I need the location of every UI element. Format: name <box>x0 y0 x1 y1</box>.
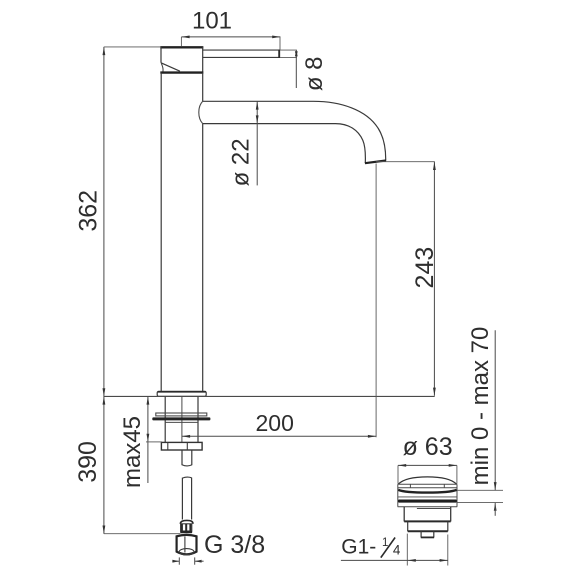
lever rod top edge <box>203 49 280 51</box>
dim o22 up arrow <box>256 101 259 109</box>
svg-text:ø 63: ø 63 <box>403 433 453 461</box>
drain body bottom bold <box>404 520 451 522</box>
crimp bottom band <box>180 531 192 533</box>
dim 362-390 line <box>103 47 105 534</box>
drain rim notch right <box>443 484 445 488</box>
drain seal dish bold <box>398 490 456 493</box>
base flange <box>157 391 206 396</box>
crimp rib 2 <box>185 524 187 531</box>
drain tab left <box>420 531 422 537</box>
faucet head top edge <box>160 46 203 48</box>
dim 200 left arrow <box>182 435 190 438</box>
drain body step line <box>417 508 450 510</box>
dim 101 line <box>181 36 280 38</box>
crimp rib 3 <box>189 524 191 531</box>
svg-text:G 3/8: G 3/8 <box>204 531 265 559</box>
dim o63 right arrow <box>449 464 457 467</box>
lower washer bold <box>152 417 210 420</box>
dim 243 line <box>433 162 435 396</box>
G38 right tick <box>194 557 196 564</box>
svg-text:200: 200 <box>256 410 294 436</box>
drain tab right <box>433 531 435 537</box>
min-max extension line upper <box>457 489 503 491</box>
dim G114 right extension <box>447 535 449 566</box>
dim 101 right extension <box>279 37 281 50</box>
dim min-max lower tail <box>494 503 496 516</box>
shank left edge <box>164 396 166 442</box>
dim min-max down arrow <box>494 482 497 490</box>
spout junction fillet arc <box>199 101 203 123</box>
lever pivot arc <box>161 63 163 71</box>
dim max45 top arrow <box>147 396 150 404</box>
dim 101 left extension <box>180 37 182 47</box>
rod stub break curve <box>182 465 192 466</box>
dim 243 bottom arrow <box>433 388 436 396</box>
counter reference line <box>104 395 435 397</box>
hose nut facet line <box>184 537 186 553</box>
drain rim notch left <box>409 484 411 488</box>
dim G114 right arrow <box>440 559 448 562</box>
lever rod bottom edge <box>203 56 280 58</box>
nut top extension line <box>146 441 162 443</box>
base flange top bold edge <box>158 391 206 393</box>
drain rim lower line <box>398 487 457 489</box>
svg-text:max45: max45 <box>119 416 146 488</box>
svg-text:4: 4 <box>393 543 401 558</box>
drain step2 right <box>447 522 449 532</box>
hose crimp top cap <box>180 520 193 523</box>
svg-text:ø 22: ø 22 <box>228 138 255 186</box>
G38 right arrow <box>195 560 202 563</box>
dim min-max line <box>494 330 496 490</box>
dim o63 line <box>398 464 457 466</box>
drain right side <box>456 484 458 507</box>
threaded rod stub right edge <box>191 450 193 465</box>
dim o8 line <box>295 50 297 88</box>
dim 200 right arrow <box>368 435 376 438</box>
column left edge <box>160 73 162 392</box>
column right edge upper <box>202 73 204 102</box>
spout outlet face <box>365 161 386 164</box>
dim 200 line <box>182 435 376 437</box>
drain under-dish line <box>398 496 457 498</box>
crimp rib 1 <box>181 524 183 531</box>
head bottom bold bar <box>160 71 203 73</box>
nut facet line 2 <box>186 442 188 450</box>
hose nut outline <box>177 535 197 554</box>
head top extension line <box>104 46 161 48</box>
dim 390 top arrow <box>103 396 106 404</box>
G38 dim line left <box>172 560 179 562</box>
dim o22 down arrow <box>256 115 259 123</box>
dim 362 bottom arrow <box>103 388 106 396</box>
dim 243 top arrow <box>433 162 436 170</box>
drain dome base line <box>398 483 457 485</box>
dim 362 top arrow <box>103 47 106 55</box>
dim o8 upper arrow <box>295 50 298 56</box>
G38 left arrow <box>172 560 179 563</box>
threaded rod stub left edge <box>181 450 183 465</box>
drain body left <box>403 507 405 522</box>
drain band bottom line <box>398 506 458 508</box>
spout bottom edge <box>203 124 366 163</box>
supply pipe right edge <box>191 478 193 520</box>
G38 dim line right <box>195 560 204 562</box>
svg-text:362: 362 <box>74 190 102 232</box>
upper washer <box>156 413 207 416</box>
svg-text:G1-: G1- <box>341 535 376 558</box>
mounting nut <box>161 442 202 450</box>
dim 101 left arrow <box>181 36 189 39</box>
dim G114 left extension <box>406 534 408 566</box>
dim max45 line <box>147 396 149 483</box>
shank right edge <box>197 396 199 442</box>
spout top edge <box>203 101 386 160</box>
supply pipe left edge <box>181 478 183 520</box>
dim G114 left arrow <box>408 559 416 562</box>
washer underside line <box>165 421 198 423</box>
svg-text:243: 243 <box>411 247 439 289</box>
svg-text:ø 8: ø 8 <box>301 56 328 91</box>
dim o8 lower arrow <box>295 51 298 57</box>
lever rod end cap <box>278 50 280 58</box>
dim o63 left extension <box>397 465 399 483</box>
dim max45 bottom arrow <box>147 434 150 442</box>
drain body right <box>450 507 452 522</box>
hose top extension line <box>104 533 180 535</box>
faucet axis extension line <box>181 396 183 442</box>
dim 101 right arrow <box>272 36 280 39</box>
drain tab bottom bold <box>421 536 434 538</box>
spout outlet extension line <box>376 161 435 163</box>
svg-text:101: 101 <box>192 7 232 34</box>
rod bottom extension line <box>280 56 297 58</box>
min-max extension line lower <box>457 502 503 504</box>
svg-text:min 0 - max 70: min 0 - max 70 <box>467 327 494 486</box>
dim min-max up arrow <box>494 503 497 511</box>
drain step2 bottom bold <box>408 530 448 532</box>
dim o63 left arrow <box>398 464 406 467</box>
hose nut bottom face ellipse <box>179 549 194 555</box>
drain left side <box>397 484 399 507</box>
drain dome cap <box>398 477 456 484</box>
column right edge lower <box>202 124 204 392</box>
dim o22 line <box>256 101 258 185</box>
svg-text:390: 390 <box>74 441 102 483</box>
dim 390 bottom arrow <box>103 526 106 534</box>
outlet vertical extension line <box>375 164 377 438</box>
rod top extension line <box>280 49 297 51</box>
hose crimp body <box>181 524 192 531</box>
drain step2 left <box>407 522 409 532</box>
faucet head left edge <box>160 46 162 62</box>
nut facet line 1 <box>167 442 169 450</box>
dim G114 line <box>341 559 448 561</box>
dim o63 right extension <box>456 465 458 483</box>
drain seat plate bold <box>398 500 457 503</box>
G38 left tick <box>178 557 180 564</box>
lever underside diagonal <box>161 63 180 71</box>
hose nut bottom ellipse <box>179 553 194 555</box>
pipe break curve <box>182 477 191 478</box>
G114 fraction slash <box>381 538 395 558</box>
faucet head right edge <box>202 46 204 72</box>
